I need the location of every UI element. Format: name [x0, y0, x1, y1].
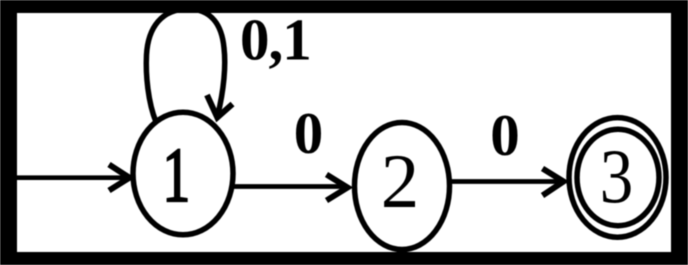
svg-text:3: 3: [600, 134, 633, 219]
svg-text:0,1: 0,1: [240, 7, 311, 73]
svg-text:0: 0: [294, 100, 324, 166]
svg-text:1: 1: [163, 132, 191, 218]
svg-text:2: 2: [381, 138, 420, 224]
svg-text:0: 0: [490, 102, 520, 168]
